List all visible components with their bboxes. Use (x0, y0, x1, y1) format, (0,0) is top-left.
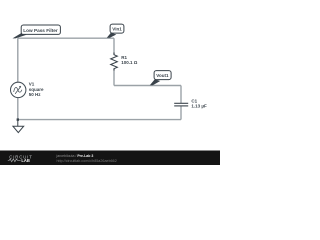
wire bottom horizontal (18, 119, 181, 121)
svg-text:Vin1: Vin1 (112, 27, 122, 32)
junction dot at ground node (17, 118, 19, 120)
wire capacitor bottom lead (180, 106, 182, 119)
wire mid horizontal to capacitor (114, 85, 181, 87)
svg-text:LAB: LAB (21, 158, 29, 163)
node flag Vin1 (107, 24, 124, 38)
wire V1 bottom to ground junction (17, 98, 19, 120)
resistor R1 (111, 53, 118, 71)
svg-text:Vout1: Vout1 (156, 73, 169, 78)
svg-text:50 Hz: 50 Hz (29, 92, 42, 97)
capacitor C1 (174, 103, 188, 106)
C1 labels (191, 98, 207, 108)
svg-text:100.1 Ω: 100.1 Ω (121, 60, 138, 65)
svg-text:Low Pass Filter: Low Pass Filter (23, 28, 58, 33)
V1 value labels (29, 82, 44, 97)
footer bar (0, 151, 220, 166)
R1 labels (121, 55, 138, 65)
node flag Vout1 (150, 71, 171, 86)
wire resistor bottom lead to mid rail (113, 69, 115, 86)
wire resistor top lead (113, 38, 115, 54)
svg-text:http://circuitlab.com/c/h85a26: http://circuitlab.com/c/h85a26aeb662 (57, 159, 117, 163)
svg-text:jarcebilouta / Pre-Lab 3: jarcebilouta / Pre-Lab 3 (56, 154, 94, 158)
ground (13, 120, 24, 133)
node flag Low Pass Filter (13, 25, 61, 38)
voltage source V1 (11, 82, 26, 97)
svg-text:1.13 µF: 1.13 µF (191, 104, 207, 109)
wire top horizontal from node A to resistor (18, 37, 114, 39)
wire left vertical into V1 top (17, 38, 19, 82)
wire capacitor top lead (180, 86, 182, 104)
footer CircuitLab logo (8, 154, 33, 163)
svg-text:R1: R1 (121, 55, 127, 60)
